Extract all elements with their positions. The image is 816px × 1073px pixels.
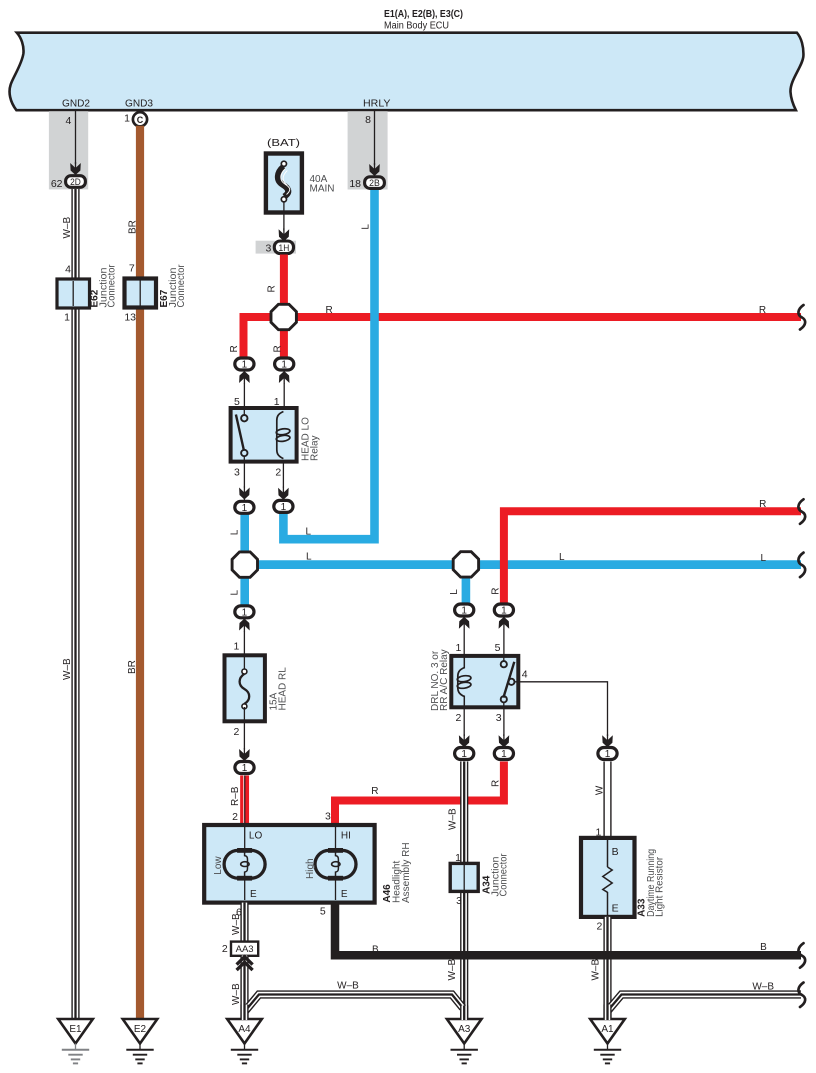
svg-text:LO: LO — [249, 831, 263, 842]
svg-text:Low: Low — [213, 856, 224, 875]
svg-text:L: L — [360, 224, 371, 230]
svg-text:1: 1 — [234, 640, 240, 652]
svg-text:R: R — [490, 588, 501, 595]
svg-text:3: 3 — [265, 243, 271, 255]
svg-text:1: 1 — [281, 502, 287, 513]
svg-text:1: 1 — [501, 606, 507, 617]
svg-text:3: 3 — [456, 895, 462, 907]
svg-text:Main Body ECU: Main Body ECU — [384, 21, 449, 32]
svg-text:GND2: GND2 — [62, 99, 90, 110]
svg-text:GND3: GND3 — [125, 99, 153, 110]
svg-text:W–B: W–B — [752, 982, 774, 993]
svg-text:HI: HI — [341, 831, 351, 842]
svg-text:18: 18 — [349, 178, 361, 190]
svg-text:L: L — [230, 590, 241, 596]
svg-text:E2: E2 — [134, 1024, 147, 1035]
svg-text:1: 1 — [64, 311, 70, 323]
svg-text:BR: BR — [127, 660, 138, 674]
svg-text:R: R — [371, 786, 378, 797]
svg-text:4: 4 — [522, 669, 528, 681]
svg-text:A1: A1 — [601, 1024, 614, 1035]
svg-text:Connector: Connector — [176, 264, 187, 308]
svg-text:1: 1 — [461, 749, 467, 760]
svg-text:2: 2 — [232, 811, 238, 823]
svg-text:L: L — [230, 529, 241, 535]
svg-text:E1: E1 — [69, 1024, 82, 1035]
svg-text:W–B: W–B — [62, 217, 73, 239]
svg-text:(BAT): (BAT) — [267, 138, 300, 149]
svg-text:W–B: W–B — [448, 808, 459, 830]
svg-text:W–B: W–B — [591, 959, 602, 981]
svg-text:A3: A3 — [458, 1024, 471, 1035]
svg-text:W–B: W–B — [337, 981, 359, 992]
svg-text:R: R — [759, 305, 766, 316]
svg-text:B: B — [612, 846, 619, 858]
svg-text:R: R — [326, 305, 333, 316]
svg-text:R: R — [229, 345, 240, 352]
svg-text:1: 1 — [605, 749, 611, 760]
svg-text:A4: A4 — [238, 1024, 251, 1035]
svg-text:62: 62 — [51, 178, 63, 190]
svg-text:Assembly RH: Assembly RH — [401, 842, 412, 903]
svg-text:HRLY: HRLY — [363, 99, 391, 110]
svg-text:3: 3 — [496, 712, 502, 724]
svg-text:1: 1 — [242, 503, 248, 514]
svg-text:Relay: Relay — [309, 435, 320, 461]
svg-text:R–B: R–B — [230, 786, 241, 806]
svg-text:2: 2 — [222, 943, 228, 955]
svg-text:1: 1 — [501, 749, 507, 760]
svg-text:1: 1 — [242, 607, 248, 618]
svg-text:W: W — [595, 785, 606, 795]
svg-text:3: 3 — [325, 811, 331, 823]
svg-text:5: 5 — [320, 905, 326, 917]
svg-text:MAIN: MAIN — [310, 184, 335, 195]
svg-text:R: R — [491, 780, 502, 787]
svg-text:R: R — [273, 345, 284, 352]
svg-text:4: 4 — [65, 264, 71, 276]
svg-text:L: L — [449, 589, 460, 595]
svg-text:R: R — [759, 499, 766, 510]
svg-text:Connector: Connector — [107, 264, 118, 308]
svg-text:L: L — [306, 552, 312, 563]
svg-text:L: L — [760, 553, 766, 564]
svg-text:E1(A), E2(B), E3(C): E1(A), E2(B), E3(C) — [384, 8, 463, 20]
svg-text:W–B: W–B — [231, 983, 242, 1005]
svg-text:W–B: W–B — [62, 658, 73, 680]
svg-text:Light Resistor: Light Resistor — [655, 856, 666, 917]
svg-text:B: B — [372, 944, 379, 955]
svg-text:2: 2 — [275, 466, 281, 478]
svg-text:2: 2 — [233, 726, 239, 738]
svg-text:7: 7 — [129, 262, 135, 274]
svg-text:HEAD RL: HEAD RL — [278, 667, 289, 711]
svg-text:8: 8 — [365, 114, 371, 126]
svg-text:2: 2 — [597, 921, 603, 933]
svg-text:RR A/C Relay: RR A/C Relay — [439, 649, 450, 711]
svg-text:BR: BR — [128, 220, 139, 234]
svg-text:1: 1 — [461, 606, 467, 617]
svg-text:3: 3 — [234, 466, 240, 478]
svg-text:AA3: AA3 — [236, 944, 254, 955]
svg-text:W–B: W–B — [447, 959, 458, 981]
svg-text:2B: 2B — [369, 178, 380, 189]
svg-text:1: 1 — [455, 852, 461, 864]
svg-text:1: 1 — [242, 763, 248, 774]
svg-text:1: 1 — [281, 360, 287, 371]
svg-text:1: 1 — [456, 642, 462, 654]
svg-text:5: 5 — [495, 642, 501, 654]
svg-text:2: 2 — [456, 712, 462, 724]
svg-text:1: 1 — [124, 112, 130, 124]
svg-text:W–B: W–B — [231, 913, 242, 935]
svg-text:E: E — [250, 889, 257, 900]
svg-text:E: E — [341, 889, 348, 900]
svg-text:2D: 2D — [70, 177, 81, 188]
svg-text:Connector: Connector — [498, 853, 509, 897]
svg-text:High: High — [305, 858, 316, 879]
svg-text:1: 1 — [242, 360, 248, 371]
svg-text:B: B — [760, 942, 767, 953]
svg-text:R: R — [267, 285, 278, 292]
svg-text:4: 4 — [65, 115, 71, 127]
svg-text:E: E — [612, 903, 619, 915]
svg-text:13: 13 — [124, 311, 136, 323]
svg-text:C: C — [137, 115, 144, 125]
svg-text:L: L — [559, 552, 565, 563]
svg-text:1H: 1H — [279, 243, 290, 254]
